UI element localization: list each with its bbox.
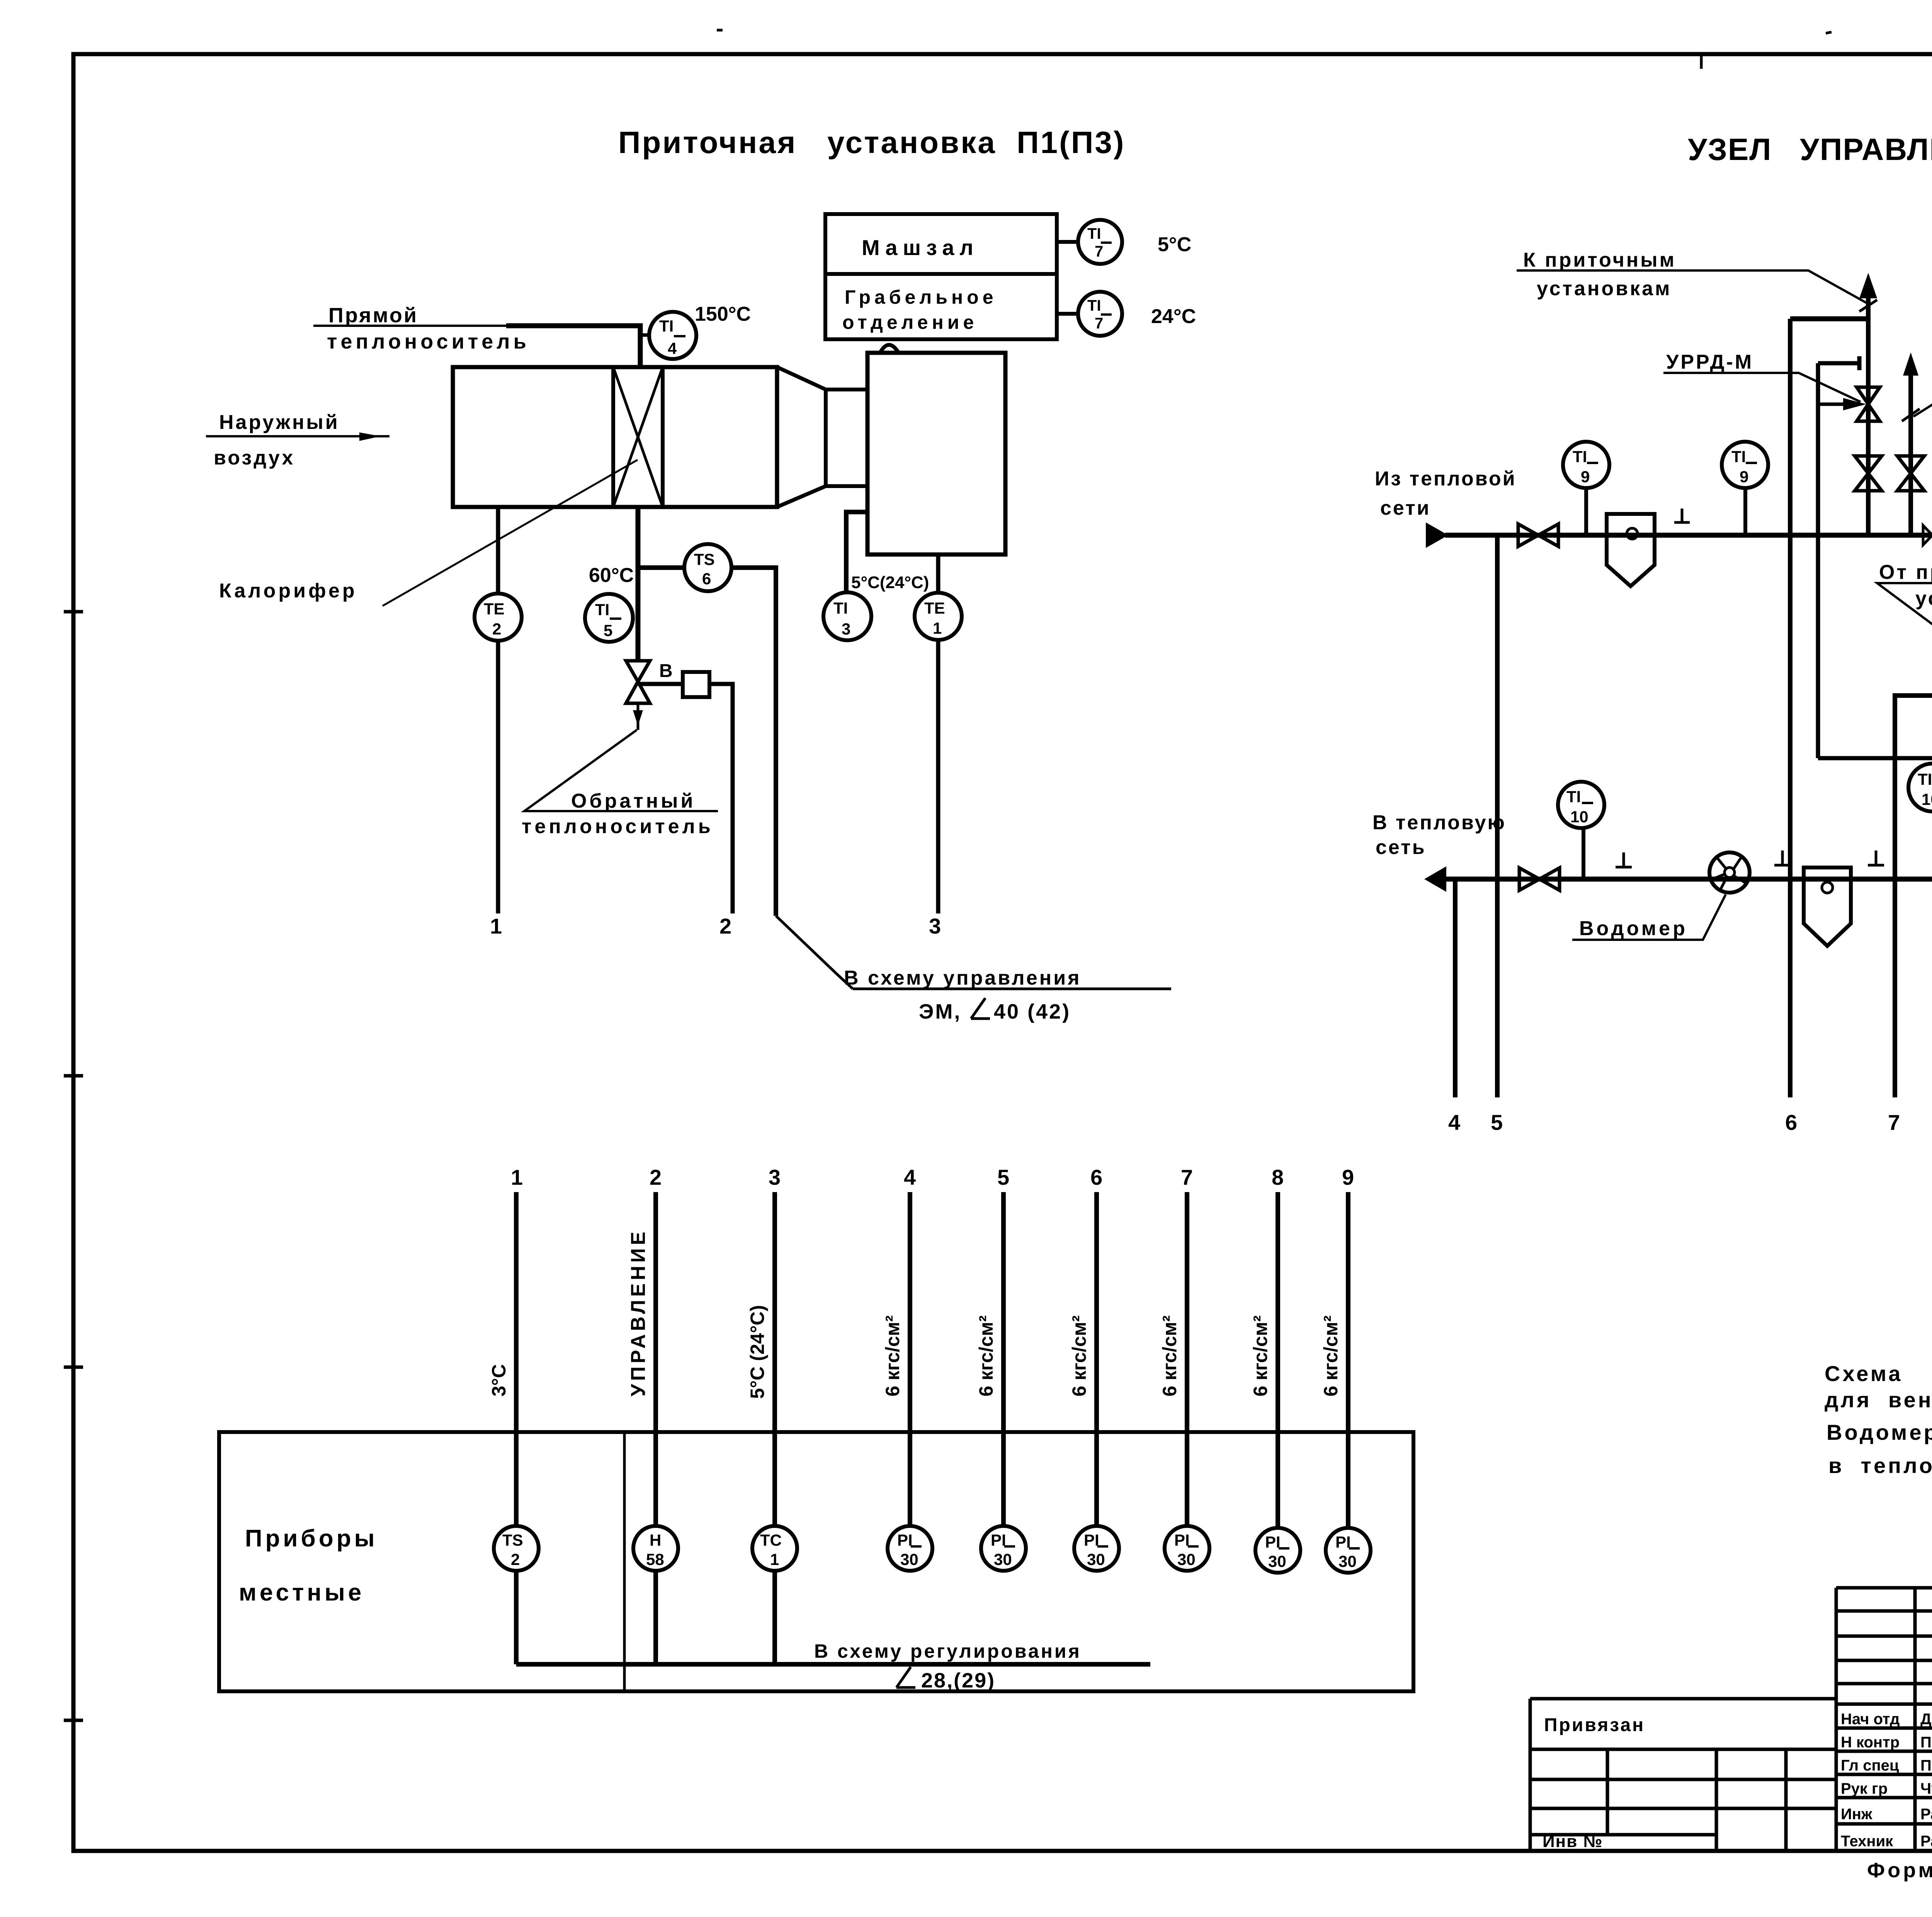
- wire: TI3 branch: [846, 512, 867, 592]
- label L28,(29): [896, 1667, 915, 1687]
- flow marker: [1923, 526, 1932, 545]
- wire: TS6 branch: [638, 568, 776, 916]
- svg-text:ТI: ТI: [595, 600, 609, 619]
- instrument H58: [633, 1526, 678, 1571]
- svg-text:1: 1: [770, 1550, 779, 1568]
- svg-text:5°С: 5°С: [1158, 233, 1191, 256]
- wire: loop to line 7: [1895, 696, 1932, 1097]
- instrument PI30: [1165, 1526, 1209, 1571]
- svg-text:30: 30: [1177, 1550, 1196, 1568]
- pipe: heat return main: [1444, 877, 1932, 882]
- svg-text:6: 6: [702, 570, 711, 588]
- block valve on riser 2: [1897, 456, 1924, 491]
- regulator valve URRD-M on riser: [1818, 387, 1880, 421]
- water meter Водомер: [1709, 852, 1750, 893]
- instrument TI10-1: [1908, 764, 1932, 811]
- svg-text:5: 5: [1491, 1110, 1503, 1135]
- svg-text:2: 2: [650, 1165, 662, 1189]
- svg-text:3°С: 3°С: [488, 1364, 510, 1397]
- wire: stub to TI4: [640, 333, 650, 337]
- svg-text:3: 3: [769, 1165, 781, 1189]
- svg-text:30: 30: [1087, 1550, 1105, 1568]
- svg-text:Машзал: Машзал: [862, 235, 979, 260]
- wire: TI9-2 stem: [1743, 488, 1747, 535]
- svg-text:Чубова: Чубова: [1920, 1780, 1932, 1797]
- svg-text:теплоноситель: теплоноситель: [522, 815, 714, 838]
- instrument TE1: [915, 593, 962, 640]
- heater section Калорифер (X): [613, 367, 663, 507]
- wire: line 5 through: [1495, 535, 1500, 1097]
- instrument TS2: [494, 1526, 539, 1571]
- pipe: heat supply main: [1445, 533, 1932, 538]
- label Обратный теплоноситель with leader: [524, 730, 718, 811]
- svg-text:теплоноситель: теплоноситель: [327, 330, 530, 353]
- svg-text:РI: РI: [1084, 1531, 1099, 1549]
- svg-text:Техник: Техник: [1841, 1833, 1893, 1850]
- brace mark: [880, 345, 898, 353]
- svg-text:ТС: ТС: [760, 1531, 782, 1549]
- instrument TI5: [585, 594, 633, 642]
- instrument TE2: [474, 594, 522, 641]
- svg-text:установкам: установкам: [1537, 277, 1672, 300]
- strainer 1: [1607, 514, 1655, 586]
- svg-text:УЗЕЛ УПРАВЛЕНИЯ: УЗЕЛ УПРАВЛЕНИЯ: [1688, 132, 1932, 167]
- wire: TI9-1 stem: [1584, 488, 1588, 535]
- svg-text:1: 1: [933, 619, 942, 637]
- instrument TI9-1: [1563, 442, 1609, 488]
- svg-text:ТI: ТI: [1918, 770, 1932, 788]
- svg-text:6 кгс/см²: 6 кгс/см²: [1068, 1315, 1090, 1397]
- svg-text:В: В: [659, 661, 673, 681]
- svg-text:ТI: ТI: [1731, 447, 1746, 466]
- svg-text:5°С (24°С): 5°С (24°С): [747, 1305, 768, 1399]
- svg-text:6 кгс/см²: 6 кгс/см²: [882, 1315, 903, 1397]
- svg-text:РI: РI: [1174, 1531, 1190, 1549]
- wire: valve to actuator: [638, 682, 683, 686]
- instrument TI4: [649, 312, 696, 359]
- svg-text:3: 3: [929, 914, 941, 938]
- svg-text:6 кгс/см²: 6 кгс/см²: [1159, 1315, 1180, 1397]
- svg-text:В схему управления: В схему управления: [844, 967, 1082, 989]
- svg-text:7: 7: [1095, 243, 1103, 260]
- svg-text:Н контр: Н контр: [1841, 1734, 1900, 1751]
- gate valve 1: [1518, 524, 1558, 546]
- svg-text:5°С(24°С): 5°С(24°С): [851, 573, 929, 592]
- drain symbol: [1774, 850, 1791, 865]
- svg-text:Инж: Инж: [1841, 1806, 1872, 1823]
- gate valve return 1: [1519, 868, 1560, 890]
- svg-text:8: 8: [1272, 1165, 1284, 1189]
- instrument TC1: [752, 1526, 797, 1571]
- instrument TI7 (Грабельное): [1078, 292, 1122, 336]
- svg-text:УПРАВЛЕНИЕ: УПРАВЛЕНИЕ: [627, 1229, 650, 1397]
- svg-text:150°С: 150°С: [695, 303, 751, 325]
- wire: TE2 drop line: [496, 507, 500, 594]
- svg-text:РI: РI: [991, 1531, 1006, 1549]
- wire: collector bus: [516, 1662, 1150, 1667]
- instrument PI30: [981, 1526, 1026, 1571]
- instrument TI9-2: [1722, 442, 1768, 488]
- hot water riser with arrow: [1908, 371, 1913, 535]
- supply pipe inlet arrow: [1426, 522, 1448, 548]
- svg-text:воздух: воздух: [214, 447, 295, 469]
- svg-text:Радионова: Радионова: [1920, 1833, 1932, 1850]
- svg-text:ТI: ТI: [1087, 225, 1101, 242]
- block valve on riser 1: [1855, 456, 1882, 491]
- room box Машзал: [825, 214, 1057, 274]
- svg-text:30: 30: [1268, 1552, 1286, 1570]
- names grid: [1530, 1699, 1836, 1851]
- wire: signal line 3: [772, 1192, 777, 1526]
- wire: TE1 drop: [936, 555, 940, 593]
- svg-text:В схему регулирования: В схему регулирования: [814, 1640, 1082, 1662]
- wire: TC1 to collector: [772, 1571, 777, 1664]
- svg-text:4: 4: [904, 1165, 916, 1189]
- svg-text:местные: местные: [239, 1579, 364, 1606]
- wire: loop top bar: [1790, 316, 1868, 321]
- svg-text:Схема разработана для вен: Схема разработана для вентсистемы П1 и п…: [1825, 1361, 1932, 1386]
- svg-text:Попов: Попов: [1920, 1734, 1932, 1751]
- svg-text:РI: РI: [897, 1531, 913, 1549]
- svg-text:24°С: 24°С: [1151, 305, 1196, 328]
- svg-text:Радовицкая: Радовицкая: [1920, 1806, 1932, 1823]
- svg-text:40 (42): 40 (42): [994, 1000, 1071, 1023]
- wire: heater return drop 60°C: [636, 507, 641, 662]
- wire: line 1 down: [496, 641, 500, 913]
- drain symbol: [1674, 509, 1690, 522]
- instrument TI10-4: [1558, 782, 1604, 828]
- wire: signal line 8: [1276, 1192, 1280, 1526]
- svg-text:Из тепловой: Из тепловой: [1375, 468, 1517, 490]
- svg-text:ТI: ТI: [1573, 447, 1587, 466]
- svg-text:1: 1: [511, 1165, 523, 1189]
- return pipe outlet arrow: [1424, 866, 1446, 892]
- svg-text:сети: сети: [1380, 497, 1431, 519]
- wire: line 3 down: [936, 640, 940, 913]
- svg-text:ТI: ТI: [833, 599, 848, 617]
- wire: long vertical line 6: [1788, 319, 1793, 1097]
- drain symbol: [1868, 850, 1884, 865]
- svg-text:58: 58: [646, 1550, 664, 1568]
- svg-text:В тепловую: В тепловую: [1372, 811, 1506, 834]
- wire: stub to TI7 upper: [1057, 240, 1078, 244]
- svg-text:Попов: Попов: [1920, 1757, 1932, 1774]
- svg-text:Грабельное: Грабельное: [845, 286, 997, 308]
- svg-text:Долотов: Долотов: [1920, 1711, 1932, 1728]
- fan unit box: [867, 353, 1005, 555]
- svg-text:6: 6: [1090, 1165, 1102, 1189]
- control valve B: [626, 661, 650, 703]
- svg-text:сеть: сеть: [1376, 836, 1426, 859]
- svg-text:7: 7: [1095, 315, 1103, 332]
- svg-text:3: 3: [842, 620, 850, 638]
- outlet nozzle: [777, 367, 867, 507]
- drain arrow below valve: [637, 703, 639, 730]
- svg-text:От приточных: От приточных: [1879, 561, 1932, 583]
- strainer 2: [1804, 867, 1851, 946]
- svg-text:2: 2: [492, 620, 501, 638]
- fold ticks left edge: [64, 612, 83, 1720]
- svg-text:К приточным: К приточным: [1523, 249, 1676, 271]
- svg-text:ЭМ,: ЭМ,: [919, 1000, 961, 1023]
- svg-text:Обратный: Обратный: [571, 790, 696, 812]
- drain symbol: [1616, 852, 1632, 867]
- svg-text:Наружный: Наружный: [219, 411, 340, 434]
- svg-text:6: 6: [1785, 1110, 1797, 1135]
- svg-text:для вентсистемы П3: для вентсистемы П3: [1825, 1388, 1932, 1412]
- svg-text:9: 9: [1581, 468, 1590, 486]
- wire: signal line 5: [1001, 1192, 1006, 1526]
- instrument TS6: [684, 544, 731, 591]
- svg-text:Калорифер: Калорифер: [219, 580, 357, 602]
- svg-text:ТI: ТI: [1087, 297, 1101, 314]
- svg-text:ТI: ТI: [1566, 788, 1581, 806]
- wire: signal line 1: [514, 1192, 519, 1526]
- svg-text:5: 5: [604, 621, 612, 640]
- svg-text:30: 30: [994, 1550, 1012, 1568]
- wire: underline of Прямой: [313, 325, 506, 327]
- wire: signal line 4: [908, 1192, 912, 1526]
- svg-text:РI: РI: [1335, 1533, 1351, 1551]
- svg-text:6 кгс/см²: 6 кгс/см²: [1320, 1315, 1342, 1397]
- svg-text:30: 30: [1338, 1552, 1357, 1570]
- wire: stub to TI7 lower: [1057, 312, 1078, 316]
- wire: signal line 7: [1185, 1192, 1189, 1526]
- tick on hot water riser: [1902, 409, 1920, 421]
- svg-text:30: 30: [900, 1550, 918, 1568]
- wire: signal line 6: [1094, 1192, 1099, 1526]
- svg-text:установок: установок: [1915, 587, 1932, 610]
- svg-text:9: 9: [1342, 1165, 1354, 1189]
- air handler box: [453, 367, 777, 507]
- tick on riser: [1859, 300, 1877, 311]
- svg-text:РI: РI: [1265, 1533, 1281, 1551]
- svg-text:Н: Н: [650, 1531, 661, 1549]
- svg-text:4: 4: [1448, 1110, 1460, 1135]
- actuator square: [683, 672, 709, 697]
- riser to supply units with arrow: [1866, 286, 1871, 535]
- leader to В схему управления: [776, 916, 1171, 989]
- svg-text:Привязан: Привязан: [1544, 1715, 1645, 1735]
- svg-text:ТS: ТS: [502, 1531, 523, 1549]
- svg-text:ТI: ТI: [659, 317, 673, 335]
- wire: impulse horizontal with tick: [1818, 750, 1932, 770]
- svg-text:6 кгс/см²: 6 кгс/см²: [975, 1315, 997, 1397]
- svg-text:Водомер и регуляторы давления: Водомер и регуляторы давления УРРД-М зак…: [1827, 1420, 1932, 1444]
- svg-text:ТS: ТS: [694, 550, 715, 568]
- svg-text:Нач отд: Нач отд: [1841, 1711, 1900, 1728]
- svg-text:Прямой: Прямой: [328, 304, 418, 327]
- instrument PI30: [888, 1526, 932, 1571]
- svg-text:Гл спец: Гл спец: [1841, 1757, 1899, 1774]
- wire: hot supply pipe to heater: [506, 326, 640, 367]
- svg-text:в теплотехнической части про: в теплотехнической части проекта: [1828, 1453, 1932, 1478]
- svg-text:отделение: отделение: [842, 311, 978, 333]
- local instruments box: [219, 1432, 1413, 1691]
- svg-text:Инв №: Инв №: [1543, 1832, 1603, 1851]
- svg-text:2: 2: [511, 1550, 520, 1568]
- svg-text:7: 7: [1888, 1110, 1900, 1135]
- wire: line 4 down: [1453, 879, 1458, 1097]
- svg-text:1: 1: [490, 914, 502, 938]
- svg-text:2: 2: [719, 914, 731, 938]
- wire: TI10-4 stem: [1582, 828, 1585, 879]
- wire: signal line 9: [1346, 1192, 1350, 1526]
- wire: actuator line 2 down: [709, 684, 733, 913]
- svg-text:9: 9: [1740, 468, 1748, 486]
- box divider: [623, 1432, 626, 1691]
- svg-text:Водомер: Водомер: [1579, 917, 1688, 940]
- svg-text:УРРД-М: УРРД-М: [1666, 351, 1753, 373]
- svg-text:5: 5: [997, 1165, 1009, 1189]
- wire: H58 to collector: [653, 1571, 658, 1664]
- instrument TI7 (Машзал): [1078, 220, 1122, 264]
- sheet scan marks: [717, 30, 1832, 69]
- svg-text:ТЕ: ТЕ: [484, 600, 505, 618]
- instrument PI30: [1326, 1528, 1371, 1573]
- svg-text:60°С: 60°С: [589, 564, 634, 587]
- title block grid: [1836, 1588, 1932, 1851]
- instrument TI3: [823, 592, 871, 640]
- svg-text:Рук гр: Рук гр: [1841, 1780, 1888, 1797]
- svg-text:6 кгс/см²: 6 кгс/см²: [1250, 1315, 1271, 1397]
- svg-text:Формат А2: Формат А2: [1867, 1859, 1932, 1882]
- svg-text:ТЕ: ТЕ: [924, 599, 945, 617]
- svg-text:10: 10: [1570, 808, 1588, 826]
- svg-text:Приборы: Приборы: [245, 1525, 378, 1552]
- room box Грабельное отделение: [825, 274, 1057, 339]
- instrument PI30: [1074, 1526, 1119, 1571]
- svg-text:28,(29): 28,(29): [921, 1669, 995, 1692]
- wire: TS2 to collector: [514, 1571, 519, 1664]
- svg-text:4: 4: [668, 339, 677, 357]
- wire: impulse vertical: [1816, 363, 1820, 758]
- svg-text:10: 10: [1922, 790, 1932, 808]
- wire: impulse top stub with tick: [1818, 356, 1859, 370]
- wire: signal line 2: [653, 1192, 658, 1526]
- svg-text:7: 7: [1181, 1165, 1193, 1189]
- svg-text:Приточная установка П1(П3): Приточная установка П1(П3): [618, 125, 1125, 160]
- instrument PI30: [1255, 1528, 1300, 1573]
